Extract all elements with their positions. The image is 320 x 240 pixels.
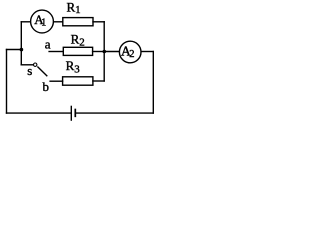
wire: outer-right vertical xyxy=(152,52,154,114)
wire: bus junction to A2 left lead xyxy=(104,51,119,53)
wire: junction to outer-left xyxy=(7,49,22,51)
resistor R1 box xyxy=(63,18,93,26)
svg-text:2: 2 xyxy=(129,49,134,60)
svg-text:b: b xyxy=(43,79,50,94)
resistor R2 box xyxy=(63,47,92,55)
ammeter A2 circle xyxy=(119,41,141,63)
wire: R1 box to right bus corner xyxy=(93,21,104,23)
svg-text:a: a xyxy=(45,36,51,51)
svg-text:R1: R1 xyxy=(67,0,81,16)
svg-text:s: s xyxy=(27,63,32,78)
wire: outer-left vertical xyxy=(6,50,8,114)
junction node left xyxy=(20,48,24,52)
wire: contact b lead to R3 xyxy=(50,80,63,82)
wire: bottom left to battery xyxy=(7,112,71,114)
wire: right bus vertical xyxy=(103,22,105,81)
wire: R3 box right lead to bus xyxy=(93,80,104,82)
wire: horizontal to switch pivot xyxy=(21,64,33,66)
wire: contact a lead to R2 xyxy=(49,51,63,53)
battery short plate xyxy=(74,110,76,117)
wire: A2 right lead xyxy=(141,51,153,53)
resistor R3 box xyxy=(63,77,93,85)
ammeter A1 circle xyxy=(31,10,54,33)
junction node right xyxy=(103,50,107,54)
wire: R2 box right lead to bus xyxy=(93,51,105,53)
svg-text:R2: R2 xyxy=(71,32,85,49)
wire: A1 right lead to R1 box xyxy=(53,21,63,23)
battery long plate xyxy=(70,106,72,120)
wire: inner-left vertical down to switch corner xyxy=(20,22,22,65)
switch s blade xyxy=(38,67,47,76)
wire: battery to bottom right corner xyxy=(76,112,154,114)
svg-text:R3: R3 xyxy=(66,58,81,75)
svg-text:1: 1 xyxy=(41,17,46,28)
wire: A1 left lead to inner-left corner xyxy=(21,21,31,23)
switch s pivot circle xyxy=(34,63,37,66)
